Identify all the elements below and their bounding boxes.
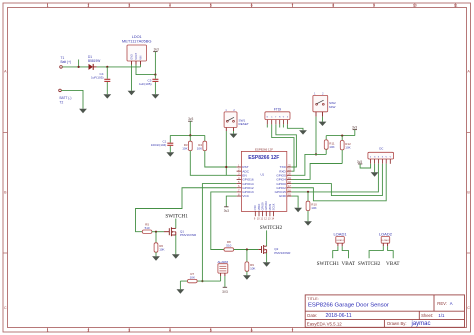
capacitor C4 1uF(105): [91, 67, 110, 94]
svg-text:Batt (+): Batt (+): [61, 60, 72, 64]
svg-text:64W: 64W: [329, 105, 335, 109]
ground under R6: [152, 256, 160, 260]
wire LDO GND pin down: [131, 65, 133, 91]
svg-text:SWITCH1: SWITCH1: [317, 261, 340, 267]
frame column ticks bottom: [48, 328, 293, 333]
frame column numbers top: [47, 4, 458, 8]
svg-text:2018-06-11: 2018-06-11: [326, 313, 352, 319]
net flag 3v3 at DC pin1: [357, 160, 362, 164]
svg-text:3V3: 3V3: [222, 290, 228, 294]
transistor Q2 PMV16XNR: [258, 245, 291, 255]
wire SW1 down to EN line: [225, 131, 227, 175]
junction R8 R9 gate: [246, 248, 248, 250]
ground under C5: [152, 94, 160, 98]
svg-text:510: 510: [145, 226, 150, 230]
wire SW2 pin2 to ground: [322, 117, 324, 122]
svg-text:10K: 10K: [182, 147, 187, 151]
svg-text:10K: 10K: [197, 147, 202, 151]
wire FTDI pin5 stub: [282, 124, 284, 127]
ground FTDI: [299, 130, 307, 134]
frame row ticks right: [467, 133, 471, 254]
junction alarm net: [201, 280, 203, 282]
svg-text:CS0: CS0: [253, 205, 257, 211]
junction at 3v3 rail: [189, 134, 191, 136]
U1 right pin stubs: [287, 167, 292, 196]
wire U-PAD1 pin1 to SWITCH1: [333, 246, 338, 258]
U1 bottom pin names: [253, 200, 275, 210]
svg-text:VOUT: VOUT: [135, 52, 138, 59]
svg-text:B5819W: B5819W: [88, 59, 100, 63]
buzzer ALARM: [217, 260, 228, 276]
wire ALARM pin2 to 3V3: [224, 276, 226, 287]
svg-text:2: 2: [87, 328, 89, 332]
title block frame: [305, 295, 464, 327]
svg-text:1uF(105): 1uF(105): [91, 76, 104, 80]
svg-text:U1: U1: [260, 172, 264, 176]
wire FTDI RXD to U1: [272, 124, 294, 171]
svg-text:5: 5: [210, 328, 212, 332]
svg-text:8: 8: [332, 4, 334, 8]
wire U-PAD2 pin1 to SWITCH2: [369, 246, 383, 258]
wire R3 to EN: [190, 151, 236, 176]
ground under R10: [304, 221, 312, 225]
junction R10 top: [307, 191, 309, 193]
svg-text:1/1: 1/1: [438, 313, 445, 318]
frame row letters left: [4, 69, 7, 310]
svg-text:SWITCH2: SWITCH2: [260, 225, 283, 231]
module U1 ESP8266 12F: [241, 147, 286, 211]
wire ALARM pin1: [220, 276, 222, 281]
wire FTDI pin4 stub: [279, 124, 281, 127]
svg-text:3v3: 3v3: [357, 160, 362, 164]
wire GPIO12 to R8: [211, 192, 237, 250]
svg-text:10K: 10K: [311, 206, 316, 210]
header DC: [368, 147, 394, 164]
svg-text:GND: GND: [279, 194, 287, 198]
svg-text:6: 6: [251, 328, 253, 332]
resistor R5 510: [142, 222, 164, 233]
svg-text:REV:: REV:: [437, 301, 447, 306]
frame row ticks left: [3, 133, 8, 254]
svg-text:C: C: [4, 306, 7, 310]
wire alarm net horizontal: [180, 280, 220, 282]
svg-text:1: 1: [47, 328, 49, 332]
junction SW2 R11 GPIO5: [315, 153, 317, 155]
wire Q1 drain: [175, 219, 177, 229]
header FTDI: [265, 107, 290, 124]
wire LDO VIN pin down to battery wire: [140, 65, 142, 67]
wire GPIO0 to DC pin4: [292, 164, 383, 196]
wire GPIO4 to R12: [292, 164, 343, 180]
resistor R9 10K: [245, 250, 255, 276]
wire FTDI pin1 stub: [266, 124, 268, 127]
svg-text:4: 4: [169, 328, 171, 332]
svg-text:LOAD2: LOAD2: [379, 231, 393, 236]
svg-text:DC: DC: [379, 147, 383, 151]
connector U-PAD1 LOAD1: [333, 231, 347, 246]
U1 right pin names: [275, 165, 287, 198]
capacitor C5 1uF(105): [139, 75, 158, 95]
net label SWITCH1 at Q1 drain: [165, 213, 188, 219]
svg-text:EasyEDA V5.5.12: EasyEDA V5.5.12: [307, 321, 342, 326]
svg-text:U-PAD2: U-PAD2: [381, 239, 390, 242]
diode D1 B5819W: [88, 55, 100, 70]
U1 left pin names: [242, 165, 253, 198]
svg-text:A: A: [450, 301, 453, 306]
ground under LDO: [128, 91, 136, 95]
pushbutton SW1 RESET: [224, 109, 249, 131]
svg-text:C: C: [467, 306, 470, 310]
svg-text:ESP8266 Garage Door Sensor: ESP8266 Garage Door Sensor: [308, 303, 389, 309]
U1 bottom pin numbers: [254, 217, 275, 220]
ground under T2: [79, 109, 87, 113]
svg-text:TITLE:: TITLE:: [307, 297, 318, 301]
junction R5 R6 gate: [155, 231, 157, 233]
wire U1 GND to ground: [292, 196, 299, 208]
frame column numbers bottom: [47, 328, 294, 332]
title block title text: [308, 303, 389, 309]
wire GPIO13 to R5: [136, 188, 237, 232]
svg-text:1uF(105): 1uF(105): [139, 82, 152, 86]
net label SWITCH2 bottom: [358, 261, 381, 267]
ground under C1: [166, 152, 174, 156]
ground under SW1: [230, 134, 238, 138]
svg-text:jaymac: jaymac: [411, 321, 431, 327]
svg-text:11: 11: [454, 4, 458, 8]
net flag 3v3 above R3: [188, 117, 193, 135]
U1 left pin numbers: [238, 164, 240, 196]
wire SW1 to ground: [233, 131, 235, 134]
svg-text:3v3: 3v3: [352, 125, 357, 129]
resistor R10 10K: [306, 192, 317, 221]
ground under Q2: [263, 262, 271, 266]
junction at C4 tap: [106, 66, 108, 68]
net flag 3V3 under ALARM: [222, 287, 228, 294]
regulator LDO1 MET1117A05BG: [122, 35, 152, 64]
resistor R3 10K: [182, 135, 192, 150]
svg-text:9: 9: [373, 4, 375, 8]
svg-text:VBAT: VBAT: [386, 261, 400, 267]
resistor R11 10K: [324, 136, 335, 155]
svg-text:510: 510: [226, 244, 231, 248]
svg-text:LOAD1: LOAD1: [333, 231, 347, 236]
net label SWITCH1 bottom: [317, 261, 340, 267]
svg-text:10: 10: [413, 4, 417, 8]
wire VCC to 3v3 flag: [226, 196, 236, 207]
title block REV: [437, 301, 453, 306]
svg-text:ESP8266 12F: ESP8266 12F: [248, 155, 279, 161]
U1 bottom pin stubs: [255, 211, 273, 216]
svg-text:Drawn By:: Drawn By:: [387, 321, 406, 326]
svg-text:4: 4: [169, 4, 171, 8]
wire R7 left to ground: [179, 281, 181, 289]
svg-text:RESET: RESET: [239, 122, 249, 126]
wire T2 to ground: [61, 90, 83, 108]
svg-text:7: 7: [291, 4, 293, 8]
svg-text:10K: 10K: [159, 247, 164, 251]
svg-text:SWITCH2: SWITCH2: [358, 261, 381, 267]
net label SWITCH2 at Q2 drain: [260, 225, 283, 231]
resistor R12 10K: [340, 136, 351, 164]
svg-text:5: 5: [210, 4, 212, 8]
svg-text:3: 3: [128, 328, 130, 332]
svg-text:GND: GND: [131, 54, 134, 60]
ground under U1 GND: [294, 208, 302, 212]
transistor Q1 PMV16XNR: [164, 227, 197, 237]
net label VBAT bottom left: [342, 261, 356, 267]
title block easyeda row: [307, 321, 342, 326]
capacitor C1 100nF(104): [151, 135, 174, 152]
resistor R4 10K: [197, 135, 207, 150]
net flag 3v3 under VCC: [224, 207, 229, 213]
wire T1 to diode: [62, 66, 88, 68]
svg-text:GPIO9: GPIO9: [261, 202, 265, 210]
svg-text:VCC: VCC: [242, 194, 249, 198]
svg-text:MISO: MISO: [257, 204, 261, 211]
svg-text:2: 2: [87, 4, 89, 8]
reed switch SW2: [313, 92, 336, 116]
svg-text:T2: T2: [60, 101, 64, 105]
junction R12 top: [341, 135, 343, 137]
svg-text:FTDI: FTDI: [274, 107, 282, 111]
svg-text:PMV16XNR: PMV16XNR: [274, 251, 291, 255]
svg-text:SWITCH1: SWITCH1: [165, 213, 188, 219]
svg-text:MET1117A05BG: MET1117A05BG: [122, 38, 152, 43]
wire U-PAD1 pin2 to VBAT: [342, 246, 348, 258]
svg-text:VIN: VIN: [140, 55, 143, 59]
svg-text:3v3: 3v3: [224, 209, 229, 213]
svg-text:3v3: 3v3: [188, 117, 193, 121]
terminal T2 BATT(-): [59, 89, 72, 105]
svg-text:Date:: Date:: [307, 313, 317, 318]
ground under Q1: [172, 254, 180, 258]
svg-text:1: 1: [47, 4, 49, 8]
svg-text:U-PAD1: U-PAD1: [336, 239, 345, 242]
wire SW2 pin1 down to GPIO5 net: [315, 117, 317, 155]
svg-text:10K: 10K: [345, 146, 350, 150]
resistor R8 510: [224, 240, 258, 251]
U1 left pin stubs: [237, 167, 242, 196]
svg-text:Sheet:: Sheet:: [421, 313, 433, 318]
wire Q2 source to ground: [266, 253, 268, 262]
svg-text:6: 6: [251, 4, 253, 8]
ground under C4: [103, 94, 111, 98]
junction at 3v3/C5 node: [154, 74, 156, 76]
net label VBAT bottom right: [386, 261, 400, 267]
svg-text:7: 7: [291, 328, 293, 332]
svg-text:10K: 10K: [190, 275, 195, 279]
svg-text:10K: 10K: [329, 145, 334, 149]
svg-text:3v3: 3v3: [154, 48, 159, 52]
wire diode to LDO VIN: [97, 66, 141, 68]
svg-text:MOSI: MOSI: [268, 203, 272, 210]
wire 3v3 rail R11 R12: [326, 135, 355, 137]
net flag 3v3 top left: [153, 48, 159, 75]
wire GPIO14 to alarm net: [202, 184, 236, 282]
junction SW1 RST crossing: [225, 166, 227, 168]
svg-text:3: 3: [128, 4, 130, 8]
wire LDO VOUT to 3v3 node: [136, 65, 155, 75]
svg-text:PMV16XNR: PMV16XNR: [180, 233, 197, 237]
title block drawn by cell: [387, 321, 430, 327]
wire 3v3 rail over C1 R3 R4: [170, 134, 205, 136]
ground under SW2: [319, 122, 327, 126]
wire Q2 drain: [266, 230, 268, 246]
svg-text:BATT (-): BATT (-): [60, 96, 72, 100]
ground under R9: [243, 275, 251, 279]
ground under DC: [371, 172, 379, 176]
ground under R7: [177, 289, 185, 293]
svg-text:ALARM: ALARM: [217, 260, 228, 264]
wire FTDI TXD to U1: [276, 124, 297, 167]
title block date row: [307, 313, 351, 319]
title block TITLE label: [307, 297, 318, 301]
svg-text:GPIO10: GPIO10: [264, 200, 268, 210]
svg-text:SCLK: SCLK: [272, 203, 276, 210]
svg-text:100nF(104): 100nF(104): [151, 143, 167, 147]
frame column ticks top: [48, 3, 456, 8]
wire U-PAD2 pin2 to VBAT: [388, 246, 394, 258]
U1 right pin numbers: [288, 164, 291, 196]
wire GPIO15 to R10 and DC pin3: [292, 164, 379, 192]
wire R4 to RST: [205, 151, 237, 167]
svg-text:VBAT: VBAT: [342, 261, 356, 267]
connector U-PAD2 LOAD2: [379, 231, 393, 246]
resistor R7 10K: [188, 272, 198, 283]
wire GPIO5 to SW2 R11: [292, 154, 327, 175]
wire Q1 source to ground: [175, 235, 177, 254]
frame row letters right: [467, 69, 470, 310]
svg-text:ESP8266 12F: ESP8266 12F: [255, 147, 273, 151]
svg-text:10K: 10K: [250, 267, 255, 271]
junction at T1 stub: [78, 66, 80, 68]
wire 3v3 to DC pin1: [360, 164, 371, 168]
wire DC pin2 to ground: [374, 164, 376, 173]
resistor R6 10K: [154, 232, 164, 257]
wire FTDI GND: [287, 124, 303, 130]
title block sheet cell: [421, 313, 445, 318]
wire GPIO2 to DC pin5: [292, 164, 387, 201]
terminal T1 Batt(+): [60, 56, 71, 68]
wire stub above T1 wire: [78, 60, 80, 67]
net flag 3v3 above R11 R12: [352, 125, 357, 135]
